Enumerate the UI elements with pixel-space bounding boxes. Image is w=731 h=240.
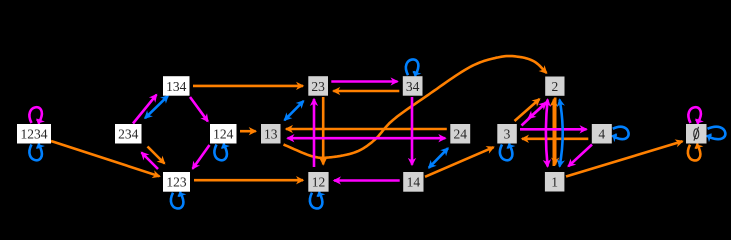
svg-text:123: 123 bbox=[166, 175, 187, 190]
svg-text:124: 124 bbox=[213, 127, 234, 142]
svg-text:12: 12 bbox=[312, 175, 326, 190]
svg-text:3: 3 bbox=[504, 127, 511, 142]
svg-text:4: 4 bbox=[598, 127, 605, 142]
svg-text:2: 2 bbox=[551, 79, 558, 94]
svg-text:14: 14 bbox=[407, 175, 421, 190]
svg-text:234: 234 bbox=[118, 127, 139, 142]
svg-text:34: 34 bbox=[406, 79, 420, 94]
svg-text:134: 134 bbox=[166, 79, 187, 94]
svg-text:1: 1 bbox=[551, 175, 558, 190]
svg-text:23: 23 bbox=[311, 79, 325, 94]
svg-text:1234: 1234 bbox=[21, 127, 48, 142]
svg-text:24: 24 bbox=[454, 127, 468, 142]
svg-text:13: 13 bbox=[264, 127, 278, 142]
